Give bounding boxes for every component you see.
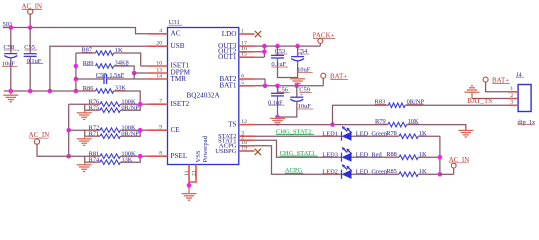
svg-text:14: 14 xyxy=(156,73,162,79)
svg-text:4: 4 xyxy=(159,28,162,34)
ground symbol under R75 xyxy=(77,110,92,119)
junction left bus at CE row xyxy=(66,128,71,133)
svg-text:CE: CE xyxy=(171,126,181,134)
pin stubs right (1,17,16,15,6,5,12,3,2,18,19) xyxy=(239,28,255,151)
wire USB pin20 to ground rail xyxy=(50,46,148,91)
junction CE pin9 xyxy=(138,128,143,133)
wire BAT_TS to J4 pin2 xyxy=(467,97,508,105)
connector PACK+ xyxy=(313,32,335,47)
svg-text:5: 5 xyxy=(241,80,244,86)
svg-text:BAT1: BAT1 xyxy=(219,82,237,90)
svg-text:19: 19 xyxy=(241,145,247,151)
resistor R87 1K xyxy=(76,47,141,66)
connector BAT+ (mid) xyxy=(321,73,348,86)
junction BAT rail at C59 xyxy=(295,84,300,89)
svg-text:1: 1 xyxy=(241,28,244,34)
svg-text:15: 15 xyxy=(241,52,247,58)
junction ISET2 pin7 xyxy=(138,102,143,107)
wire ISET1 pin10 feed xyxy=(141,65,148,67)
junction OUT bus mid xyxy=(262,50,267,55)
svg-text:Powerpad: Powerpad xyxy=(202,135,209,162)
capacitor C54 10uF (polarized) xyxy=(291,46,313,77)
pin names left side of U31 xyxy=(171,30,191,160)
connector BAT+ (at J4) xyxy=(483,76,510,91)
resistor pair R72 100K / R71 0R/NP (CE) xyxy=(69,124,148,138)
svg-text:8: 8 xyxy=(159,151,162,157)
resistor pair R81 100K / R74 33K (PSEL) xyxy=(69,150,148,164)
junction at IC ground xyxy=(187,183,192,188)
svg-text:ISET2: ISET2 xyxy=(171,100,190,108)
ground symbol under R74 xyxy=(77,162,92,171)
resistor pair R76 100K / R75 0R/NP (ISET2) xyxy=(69,98,148,112)
svg-text:PSEL: PSEL xyxy=(171,152,188,160)
wire OUT3/OUT2/OUT1 bus xyxy=(255,46,265,57)
junction LED bus row2 xyxy=(438,155,443,160)
svg-text:AC: AC xyxy=(171,30,181,38)
resistor R78 1K xyxy=(352,130,440,139)
junction under C56 xyxy=(275,115,280,120)
ground symbol under C58 xyxy=(3,91,18,102)
wire LED bus to AC_IN xyxy=(440,173,454,175)
svg-text:10: 10 xyxy=(156,60,162,66)
capacitor C55 0.1uF xyxy=(24,28,43,92)
junction LED bus row3 xyxy=(438,172,443,177)
ground symbol at R79 xyxy=(458,130,473,137)
junction bus at C57 xyxy=(74,77,79,82)
svg-text:VSS: VSS xyxy=(195,150,202,162)
resistor R86 33K xyxy=(83,85,126,94)
LED LED1 LED_Green xyxy=(322,127,388,141)
wire BAT2/BAT1 bus xyxy=(255,79,266,86)
connector AC_IN (lower left) xyxy=(29,131,50,144)
capacitor C57 1.5nF xyxy=(76,72,148,84)
wire AC rail to pin 4 xyxy=(3,28,148,34)
pin stubs J4 (1,2,3) xyxy=(508,86,518,106)
connector AC_IN (right) xyxy=(449,156,470,175)
svg-text:TS: TS xyxy=(228,120,236,128)
resistor R85 1K xyxy=(352,168,440,177)
svg-text:3: 3 xyxy=(510,100,513,106)
junction left bus at PSEL row xyxy=(66,154,71,159)
wire AC_IN stem to rail xyxy=(29,14,31,27)
wire AC_IN lower to PSEL row xyxy=(37,144,69,156)
junction PACK rail at C53 xyxy=(275,44,280,49)
ground symbol (inverted) on BAT_TS xyxy=(465,86,480,99)
svg-text:2: 2 xyxy=(510,93,513,99)
svg-text:1: 1 xyxy=(510,86,513,92)
ground symbol under C53/C54 xyxy=(290,78,305,86)
junction on rail at C58 xyxy=(9,25,14,30)
resistor R79 10K xyxy=(375,118,466,130)
ground symbol under C56/C59 xyxy=(270,117,285,125)
connector AC_IN (top input) xyxy=(22,3,43,15)
op-amp U1 (IC U31 BQ24032A body) xyxy=(168,19,239,164)
wire LED supply bus xyxy=(439,136,441,174)
svg-text:7: 7 xyxy=(159,99,162,105)
capacitor C58 10uF (polarized) xyxy=(2,28,20,92)
svg-text:USB: USB xyxy=(171,42,185,50)
svg-text:20: 20 xyxy=(156,41,162,47)
svg-text:21: 21 xyxy=(191,170,197,176)
capacitor C56 0.1uF xyxy=(268,86,290,117)
resistor R88 1K xyxy=(352,151,440,160)
wire ACPG row xyxy=(255,146,342,175)
no-connect X on LDO pin1 xyxy=(255,31,261,37)
connector J4 dip_1x xyxy=(516,71,536,125)
junction DPPM/TMR/R89 xyxy=(132,71,137,76)
capacitor C53 0.1uF xyxy=(271,46,298,77)
svg-text:9: 9 xyxy=(159,125,162,131)
ground symbol under U31 xyxy=(182,188,197,200)
junction PACK rail at C54 xyxy=(295,44,300,49)
wire STAT1 row (CHG_STAT1) xyxy=(255,140,342,157)
ground symbol under R71 xyxy=(77,136,92,145)
wire TS pin12 row xyxy=(255,124,388,126)
junction on rail at AC_IN xyxy=(28,25,33,30)
svg-text:+: + xyxy=(17,49,20,55)
wire STAT2 row (CHG_STAT2) xyxy=(255,129,342,137)
junction gnd rail at USB drop xyxy=(48,89,53,94)
pin stubs bottom 11 and 21 with ground xyxy=(184,165,197,189)
wire left bus of RC network xyxy=(75,53,77,91)
LED LED3 LED_Red xyxy=(322,148,382,162)
junction BAT rail at C56 xyxy=(275,84,280,89)
no-connect X on USBPG pin19 xyxy=(255,149,261,155)
svg-text:12: 12 xyxy=(241,119,247,125)
svg-text:OUT1: OUT1 xyxy=(218,53,237,61)
wire PACK rail xyxy=(264,45,320,47)
svg-text:11: 11 xyxy=(184,170,190,176)
junction BAT bus xyxy=(263,84,268,89)
junction gnd rail at C58 xyxy=(9,89,14,94)
resistor R83 0R/NP xyxy=(375,98,508,107)
wire DPPM pin13 feed xyxy=(134,73,147,79)
svg-text:6: 6 xyxy=(241,73,244,79)
VSS Powerpad rotated labels xyxy=(195,135,209,162)
junction TS branch xyxy=(330,122,335,127)
svg-text:TMR: TMR xyxy=(171,75,187,83)
svg-text:LDO: LDO xyxy=(222,30,237,38)
junction gnd rail at C55 xyxy=(28,89,33,94)
svg-text:USBPG: USBPG xyxy=(215,148,236,155)
wire BAT rail xyxy=(265,85,323,87)
pin stubs left (4,20,10,13,14,7,9,8) xyxy=(148,28,168,156)
wire ground rail (C58/C55/USB/R86 row) xyxy=(4,91,140,104)
junction OUT bus top xyxy=(262,44,267,49)
svg-text:BAT_TS: BAT_TS xyxy=(467,97,492,105)
LED LED2 LED_Green xyxy=(322,165,388,179)
junction gnd rail at left bus xyxy=(74,89,79,94)
junction PSEL pin8 xyxy=(138,154,143,159)
junction bus at R89 xyxy=(74,64,79,69)
capacitor C59 10uF (polarized) xyxy=(278,86,314,117)
net label 503 xyxy=(3,21,15,28)
resistor R89 34K8 xyxy=(83,60,134,73)
wire left vertical bus (AC_IN sense) xyxy=(68,104,70,156)
wire TS to R83 branch xyxy=(333,105,389,124)
svg-text:BQ24032A: BQ24032A xyxy=(187,92,221,100)
pin names right side of U31 xyxy=(215,30,237,155)
